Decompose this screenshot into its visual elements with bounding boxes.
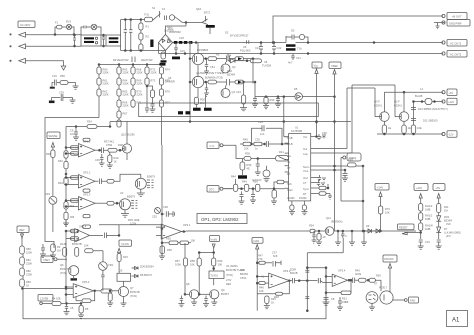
wire +12V rail — [413, 101, 443, 103]
fusible links — [174, 36, 193, 44]
cap C6 pair — [227, 56, 236, 63]
cap C7 pair — [227, 79, 236, 86]
svg-text:Out: Out — [303, 147, 307, 151]
snubber C39 — [49, 91, 76, 104]
feedback oval OP1.4 — [83, 225, 91, 228]
svg-text:D10 SB560 (SCHOTTKY): D10 SB560 (SCHOTTKY) — [418, 107, 448, 111]
oval R55b — [178, 239, 195, 245]
pin dot N — [10, 45, 12, 47]
label box VC — [375, 184, 389, 201]
resistor bank x66 R65 — [64, 202, 75, 213]
resistor RB3 — [84, 244, 103, 262]
svg-text:DRIVER: DRIVER — [165, 80, 175, 84]
svg-text:R39: R39 — [247, 163, 252, 167]
svg-text:Vme: Vme — [303, 169, 309, 173]
bus caps — [132, 57, 135, 63]
svg-text:CT: CT — [287, 166, 291, 170]
svg-text:Q2 F: Q2 F — [394, 100, 400, 104]
svg-text:C21: C21 — [255, 46, 260, 50]
svg-text:220K: 220K — [151, 71, 157, 75]
svg-text:D5: D5 — [294, 87, 298, 91]
cap chain2 — [437, 240, 441, 246]
svg-text:Vcc: Vcc — [314, 64, 319, 68]
svg-text:VREF: VREF — [331, 64, 338, 68]
svg-text:R50: R50 — [376, 274, 381, 278]
resistor R54 on rail — [309, 224, 315, 233]
cap on column upper — [305, 270, 309, 272]
svg-text:R67: R67 — [123, 112, 128, 116]
elco C41 — [203, 296, 209, 307]
IC pin14 resistor — [316, 158, 364, 167]
transistor Q2F — [394, 85, 409, 121]
resistor R1 — [139, 20, 150, 31]
svg-text:U5: U5 — [264, 60, 268, 64]
svg-text:C37: C37 — [272, 251, 277, 255]
svg-text:4V9: 4V9 — [446, 222, 451, 226]
svg-text:C41: C41 — [296, 56, 301, 60]
IC pin11 wire — [316, 88, 376, 149]
resistor R46 — [254, 138, 266, 151]
svg-text:TH1: TH1 — [144, 13, 149, 17]
svg-text:SENSE: SENSE — [49, 134, 58, 138]
pin13 cap to gnd — [342, 170, 348, 181]
svg-text:OP1.4: OP1.4 — [79, 225, 87, 229]
svg-text:RT: RT — [287, 172, 291, 176]
svg-text:Q8: Q8 — [186, 282, 190, 286]
svg-text:Q7: Q7 — [130, 286, 134, 290]
svg-text:1n3: 1n3 — [260, 132, 265, 136]
svg-text:C52: C52 — [152, 215, 157, 219]
snubber above T1A — [286, 29, 308, 43]
svg-text:FREQ: FREQ — [349, 156, 356, 160]
svg-text:R64: R64 — [58, 181, 63, 185]
MOSFET Q6 — [192, 43, 209, 78]
svg-text:R54: R54 — [309, 224, 314, 228]
svg-text:10K: 10K — [385, 211, 390, 215]
svg-text:R44: R44 — [231, 175, 236, 179]
diode D2a — [235, 57, 254, 84]
cap C51 — [204, 59, 215, 75]
input cap — [307, 278, 332, 283]
cap C33 — [255, 159, 261, 176]
snubber C16 R50 — [50, 74, 79, 89]
resistor bank x66 R66 — [64, 212, 75, 226]
fuse F1 — [54, 21, 66, 36]
transistor Q8b — [185, 282, 199, 299]
label box IADJ — [252, 238, 263, 311]
resistor R47 — [238, 159, 252, 179]
resistor RC2 — [107, 291, 113, 306]
vertical x162 — [161, 145, 163, 256]
svg-text:R49: R49 — [355, 269, 360, 273]
gnd stub 364 — [361, 231, 367, 245]
svg-text:2.5V: 2.5V — [226, 278, 232, 282]
svg-text:R15: R15 — [123, 255, 128, 259]
cap C29 — [100, 148, 109, 154]
gnd chain1 — [418, 246, 424, 249]
svg-text:1K8: 1K8 — [70, 215, 75, 219]
wire y97 to vref col — [316, 121, 318, 123]
common-mode choke L1 — [81, 35, 101, 46]
cap C25 — [275, 97, 281, 108]
svg-text:2E2/0.5W: 2E2/0.5W — [141, 58, 153, 62]
input oval OP1.4a — [71, 229, 79, 232]
svg-text:220K: 220K — [123, 104, 129, 108]
resistor RE3 — [411, 125, 422, 134]
svg-text:BD1: BD1 — [168, 27, 174, 31]
svg-text:Q10 BUZ90: Q10 BUZ90 — [121, 133, 135, 137]
svg-text:R38: R38 — [245, 152, 250, 156]
pin dot L — [10, 34, 12, 36]
svg-text:BC547B: BC547B — [130, 290, 140, 294]
svg-text:R5: R5 — [85, 307, 89, 311]
svg-text:27K: 27K — [258, 257, 263, 261]
switch S1 — [152, 6, 161, 20]
svg-text:TL431: TL431 — [211, 274, 219, 278]
op-amp OP1.1 — [65, 140, 100, 158]
svg-text:R47: R47 — [258, 254, 263, 258]
svg-text:R40: R40 — [114, 156, 119, 160]
connector J6 — [442, 98, 457, 105]
HV- rail — [159, 53, 287, 55]
X-cap C1 — [73, 34, 76, 47]
pot R41 — [276, 150, 289, 161]
svg-text:PC817: PC817 — [379, 286, 387, 290]
op-amp OP2.3 — [256, 269, 291, 288]
svg-text:R83: R83 — [26, 280, 31, 284]
IC pin13 wire — [316, 169, 346, 171]
svg-text:R82: R82 — [26, 269, 31, 273]
svg-text:220K: 220K — [123, 93, 129, 97]
connector J1 — [442, 13, 467, 20]
svg-text:U7: U7 — [374, 282, 378, 286]
svg-text:4K99: 4K99 — [355, 272, 362, 276]
svg-text:R50: R50 — [60, 74, 65, 78]
svg-text:R33: R33 — [270, 98, 275, 102]
wire to pin1 — [284, 97, 289, 137]
feedback R51 — [326, 279, 352, 304]
opto emitter out — [393, 299, 404, 301]
svg-text:VR2: VR2 — [108, 263, 114, 267]
svg-text:OP2.4: OP2.4 — [338, 269, 346, 273]
svg-text:AC OUT1: AC OUT1 — [450, 41, 462, 45]
svg-text:OP1.2: OP1.2 — [83, 171, 91, 175]
svg-text:AC 230V: AC 230V — [20, 23, 31, 27]
trimmer VR1 — [45, 192, 57, 232]
IC pin10 wire — [316, 85, 396, 153]
svg-text:RH1W: RH1W — [425, 224, 433, 228]
wire secondary rail lower — [286, 53, 443, 55]
resistor R36 — [46, 150, 55, 196]
input oval OP1.4b — [71, 237, 79, 240]
svg-text:R57: R57 — [175, 259, 180, 263]
OP2.2 feedback — [76, 291, 95, 303]
ground QD1 — [137, 189, 145, 196]
resistor R50b — [369, 274, 381, 292]
connector arrow PE — [19, 58, 66, 70]
svg-text:R3: R3 — [57, 245, 61, 249]
thermistor TH1 — [144, 13, 153, 22]
svg-text:220K: 220K — [26, 273, 32, 277]
label box VCC — [312, 62, 322, 137]
svg-text:C5: C5 — [70, 306, 74, 310]
Y-cap C4 — [129, 20, 132, 51]
resistor R38 — [104, 140, 123, 153]
svg-text:4n7: 4n7 — [288, 61, 293, 65]
caps across HV rails — [255, 42, 263, 55]
cap chain1 — [419, 240, 431, 246]
cap C60 below rail — [312, 231, 317, 243]
wire -12V rail — [377, 133, 443, 135]
resistor R2 — [139, 30, 150, 40]
diode DU2 — [132, 273, 153, 278]
bottom box outline — [23, 246, 326, 319]
transistor Q9 — [198, 288, 229, 299]
optocoupler U7 LED — [366, 292, 378, 304]
svg-text:OP1.3: OP1.3 — [83, 193, 91, 197]
OP1.4 output chain — [90, 225, 163, 238]
svg-text:R37 9K1: R37 9K1 — [104, 140, 115, 144]
svg-text:D4: D4 — [228, 54, 232, 58]
op-amp OP2.1 — [156, 223, 191, 239]
svg-text:1M: 1M — [444, 209, 448, 213]
resistor R45 — [240, 138, 254, 151]
svg-text:R49: R49 — [242, 180, 247, 184]
svg-text:10K: 10K — [259, 289, 264, 293]
cap on column lower — [305, 297, 309, 299]
cap at 342.8 — [341, 231, 347, 238]
svg-text:(TO9): (TO9) — [130, 294, 137, 298]
svg-text:C16: C16 — [52, 74, 57, 78]
MOSFET Q6B — [190, 76, 223, 98]
feedback R48 — [257, 281, 289, 299]
long wire y121.5 — [110, 121, 351, 123]
diode D2b — [235, 80, 256, 97]
transformer T1A core — [286, 44, 302, 50]
resistor R73 — [419, 213, 433, 223]
bypass chain over L1 — [81, 24, 101, 35]
resistor R34t — [76, 120, 111, 129]
shield box around switcher — [139, 103, 319, 117]
connector J7 — [442, 131, 457, 138]
cap C42 — [272, 251, 281, 267]
diode D10 stack — [411, 102, 448, 126]
resistor column 5 — [159, 65, 170, 146]
gnd Q8b — [191, 299, 197, 305]
resistor R30 — [193, 97, 205, 111]
U6 label — [240, 45, 251, 53]
svg-text:AGND: AGND — [287, 196, 295, 200]
label box VOUT2 — [118, 240, 132, 253]
svg-text:R70: R70 — [385, 207, 390, 211]
svg-text:R80: R80 — [26, 247, 31, 251]
svg-text:C51: C51 — [210, 65, 215, 69]
zener ZD2b — [436, 227, 461, 239]
svg-text:FAN: FAN — [410, 299, 415, 303]
svg-text:ISET: ISET — [19, 228, 25, 232]
driver transistor QD1 — [135, 174, 155, 189]
label box SENSE — [47, 132, 60, 150]
svg-text:C18: C18 — [179, 36, 184, 40]
svg-text:C29: C29 — [258, 120, 263, 124]
svg-text:4E: 4E — [247, 167, 250, 171]
OP1.3 output chain — [95, 201, 120, 205]
svg-text:BD241: BD241 — [374, 104, 382, 108]
transistor Q6A — [186, 7, 215, 34]
resistor R56 — [159, 246, 172, 259]
bridge rectifier BD1 — [159, 27, 181, 51]
svg-text:R1: R1 — [146, 25, 150, 29]
svg-text:C9: C9 — [70, 129, 74, 133]
svg-text:R45: R45 — [243, 138, 248, 142]
svg-text:U6: U6 — [243, 45, 247, 49]
resistor R46 — [257, 282, 269, 294]
cap C24 — [252, 97, 258, 108]
wire y252.8 — [307, 238, 343, 253]
connector J3 — [442, 40, 467, 47]
svg-text:TL431B: TL431B — [262, 64, 271, 68]
svg-text:R58: R58 — [190, 259, 195, 263]
svg-text:220K: 220K — [123, 71, 129, 75]
text U5 — [262, 60, 271, 68]
mid X-cap C2 — [101, 34, 106, 47]
svg-text:R76: R76 — [165, 90, 170, 94]
svg-text:U1: U1 — [295, 126, 299, 130]
svg-text:Q2: Q2 — [232, 65, 236, 69]
relay contact K1 — [169, 15, 182, 23]
svg-text:BC547B: BC547B — [72, 242, 82, 246]
bus end terminal — [160, 63, 166, 66]
thermistor TH3 — [152, 208, 161, 219]
svg-text:Q3: Q3 — [232, 90, 236, 94]
cap CB1 — [101, 270, 104, 291]
svg-text:D9: D9 — [366, 224, 370, 228]
ground pin A of U1 — [289, 205, 295, 215]
input oval OP1.2a — [71, 176, 79, 179]
svg-text:10E: 10E — [417, 126, 422, 130]
ground Q13 — [71, 276, 78, 281]
op-amp OP2.2 — [66, 280, 96, 298]
svg-text:BZX84: BZX84 — [227, 73, 235, 77]
svg-text:C8: C8 — [331, 297, 335, 301]
svg-text:D2: D2 — [225, 31, 229, 35]
svg-text:RV1: RV1 — [66, 20, 72, 24]
svg-text:CT: CT — [303, 181, 307, 185]
x66 column lower — [65, 231, 67, 303]
svg-text:+B OUT: +B OUT — [452, 14, 462, 18]
svg-text:Q12: Q12 — [326, 216, 331, 220]
resistor column 2 — [117, 65, 129, 128]
svg-text:220K: 220K — [137, 82, 143, 86]
svg-text:C22: C22 — [277, 46, 282, 50]
feedback oval OP1.2 — [83, 189, 90, 192]
resistor R75 — [437, 204, 450, 216]
resistor RB1 — [60, 242, 67, 256]
connector J5 — [442, 89, 457, 96]
svg-text:C23: C23 — [236, 90, 241, 94]
connector arrow L — [19, 32, 81, 37]
label box DTC — [207, 186, 232, 193]
column 4 branch — [145, 86, 156, 113]
svg-text:R81: R81 — [26, 258, 31, 262]
wire to Q6A — [182, 22, 187, 24]
svg-text:8K2: 8K2 — [70, 204, 75, 208]
svg-text:10K: 10K — [84, 244, 89, 248]
svg-text:U2: U2 — [120, 191, 124, 195]
svg-text:0.5W: 0.5W — [106, 143, 113, 147]
svg-text:R46: R46 — [259, 286, 264, 290]
svg-text:R34: R34 — [87, 120, 92, 124]
connector arrow N — [19, 44, 81, 49]
trimmer VR2 — [99, 262, 114, 271]
resistor bank x66 R62 — [58, 147, 68, 163]
svg-text:C38: C38 — [163, 205, 168, 209]
svg-text:OP1, OP2: LM2902: OP1, OP2: LM2902 — [201, 217, 239, 222]
ground x66 — [63, 220, 69, 227]
right column x307 — [306, 253, 308, 312]
svg-text:R# 2E2/0.5W: R# 2E2/0.5W — [113, 58, 129, 62]
shield box edge — [45, 118, 99, 249]
svg-text:KA7500B: KA7500B — [291, 129, 302, 133]
svg-text:220K: 220K — [137, 71, 143, 75]
cap C46 — [337, 297, 349, 310]
svg-text:R55: R55 — [166, 237, 171, 241]
wire y252.5 — [198, 252, 214, 254]
IC pin5 cap — [316, 175, 327, 181]
resistor R3 — [204, 53, 226, 61]
svg-text:PGND: PGND — [299, 196, 307, 200]
svg-text:U6: U6 — [168, 76, 172, 80]
svg-text:220K: 220K — [103, 93, 109, 97]
driver transistor QD2 — [120, 191, 138, 210]
feedback oval above OP1.1 — [83, 138, 90, 141]
label box ONOFF — [383, 255, 397, 289]
resistor column 4 — [145, 65, 157, 87]
resistor R52 — [274, 180, 289, 188]
svg-text:220K: 220K — [103, 71, 109, 75]
svg-text:K1: K1 — [162, 7, 166, 11]
svg-text:BZX84: BZX84 — [444, 219, 452, 223]
resistor R31 — [204, 95, 212, 111]
svg-text:1K: 1K — [26, 284, 29, 288]
text alternative note — [196, 71, 224, 75]
vertical x185 — [184, 244, 186, 295]
svg-text:10K: 10K — [244, 147, 249, 151]
resistor bank x66 R64 — [58, 178, 68, 202]
svg-text:(BUZ90A): (BUZ90A) — [331, 220, 343, 224]
diode D4 row — [228, 54, 262, 63]
svg-text:C10: C10 — [425, 240, 430, 244]
svg-text:R62: R62 — [58, 159, 63, 163]
svg-text:100K: 100K — [175, 263, 181, 267]
thermistor TH2 — [161, 52, 167, 63]
svg-text:AC OUT2: AC OUT2 — [450, 52, 462, 56]
svg-text:(TO9): (TO9) — [226, 273, 233, 277]
svg-text:R5: R5 — [216, 53, 220, 57]
label box AUX — [38, 295, 53, 305]
secondary rails — [296, 42, 444, 44]
pin dot PE — [10, 60, 12, 62]
HV+ rail — [173, 42, 287, 44]
svg-text:OP2.1: OP2.1 — [183, 223, 191, 227]
label box VCC2 — [433, 184, 445, 204]
svg-text:R56: R56 — [167, 248, 172, 252]
svg-text:RT: RT — [303, 192, 307, 196]
svg-text:PQL-800: PQL-800 — [240, 49, 251, 53]
resistor RB2 — [72, 242, 82, 256]
svg-text:D11 SB5100: D11 SB5100 — [423, 119, 438, 123]
svg-text:+12V: +12V — [448, 100, 454, 104]
